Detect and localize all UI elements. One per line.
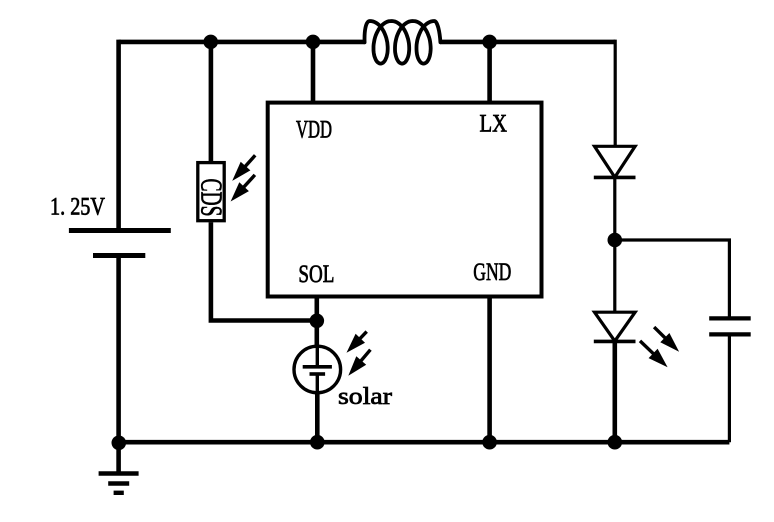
wire SOL pin	[314, 297, 319, 347]
wire GND pin	[487, 297, 492, 443]
wire mid node to LED D2	[613, 240, 616, 312]
wire bottom rail	[119, 440, 730, 445]
wire top rail right segment (inductor to top-right corner)	[440, 40, 615, 45]
svg-text:CDS: CDS	[195, 179, 230, 217]
light arrow into solar 1	[347, 332, 367, 353]
solar cell body	[294, 346, 341, 393]
wire solar to bottom rail	[315, 392, 320, 442]
node mid right (D1/LED/cap)	[608, 233, 623, 248]
node SOL junction	[310, 314, 325, 329]
wire left branch lower (battery to bottom rail)	[116, 256, 121, 443]
node top rail / CDS branch	[203, 35, 218, 50]
svg-text:1. 25V: 1. 25V	[50, 194, 105, 221]
node solar / bottom rail	[310, 435, 325, 450]
wire CDS branch lower (down then right to SOL node)	[211, 222, 317, 320]
wire VDD pin	[311, 42, 316, 103]
label CDS (rotated)	[195, 179, 230, 217]
wire D1 to mid node	[613, 177, 616, 240]
node top rail / LX branch	[482, 35, 497, 50]
inductor L1	[365, 21, 441, 64]
wire LX pin	[487, 42, 492, 103]
svg-text:solar: solar	[338, 384, 392, 410]
wire left branch upper (top rail down to battery)	[116, 40, 121, 231]
ground	[99, 442, 139, 493]
light arrow into CDS 2	[231, 175, 255, 202]
svg-text:SOL: SOL	[298, 261, 334, 288]
pin label GND	[473, 259, 511, 286]
svg-text:VDD: VDD	[296, 117, 332, 144]
pin label SOL	[298, 261, 334, 288]
LED D2	[594, 312, 636, 341]
wire LED to bottom rail	[612, 341, 617, 442]
op IC U1 box	[268, 103, 542, 297]
label solar	[338, 384, 392, 410]
node top rail / VDD branch	[306, 35, 321, 50]
pin label LX	[480, 111, 508, 138]
wire mid node to capacitor branch	[615, 240, 730, 318]
svg-text:LX: LX	[480, 111, 508, 138]
node ground junction	[112, 436, 127, 451]
node GND / bottom rail	[482, 435, 497, 450]
capacitor C1	[709, 318, 751, 334]
diode D1	[594, 146, 636, 177]
wire CDS branch upper	[209, 42, 214, 161]
pin label VDD	[296, 117, 332, 144]
light arrow out of LED 2	[640, 341, 668, 367]
light arrow into CDS 1	[232, 155, 255, 181]
light arrow into solar 2	[348, 350, 370, 376]
battery B1 1.25V	[69, 231, 171, 256]
wire top rail left segment (battery top to inductor)	[119, 40, 365, 45]
wire right branch (top corner down to diode D1)	[614, 40, 617, 146]
value label 1.25V	[50, 194, 105, 221]
light arrow out of LED 1	[654, 327, 679, 352]
svg-text:GND: GND	[473, 259, 511, 286]
photoresistor CDS body	[198, 163, 224, 221]
node LED / bottom rail	[608, 435, 623, 450]
wire capacitor to bottom rail	[728, 334, 731, 442]
